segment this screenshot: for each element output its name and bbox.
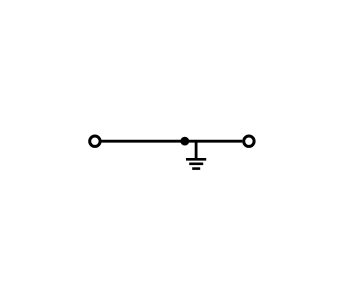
terminal (left) xyxy=(90,136,100,146)
wire xyxy=(195,141,198,159)
terminal (right) xyxy=(244,136,254,146)
wire xyxy=(102,140,243,143)
ground xyxy=(186,159,206,168)
junction node xyxy=(180,137,189,146)
